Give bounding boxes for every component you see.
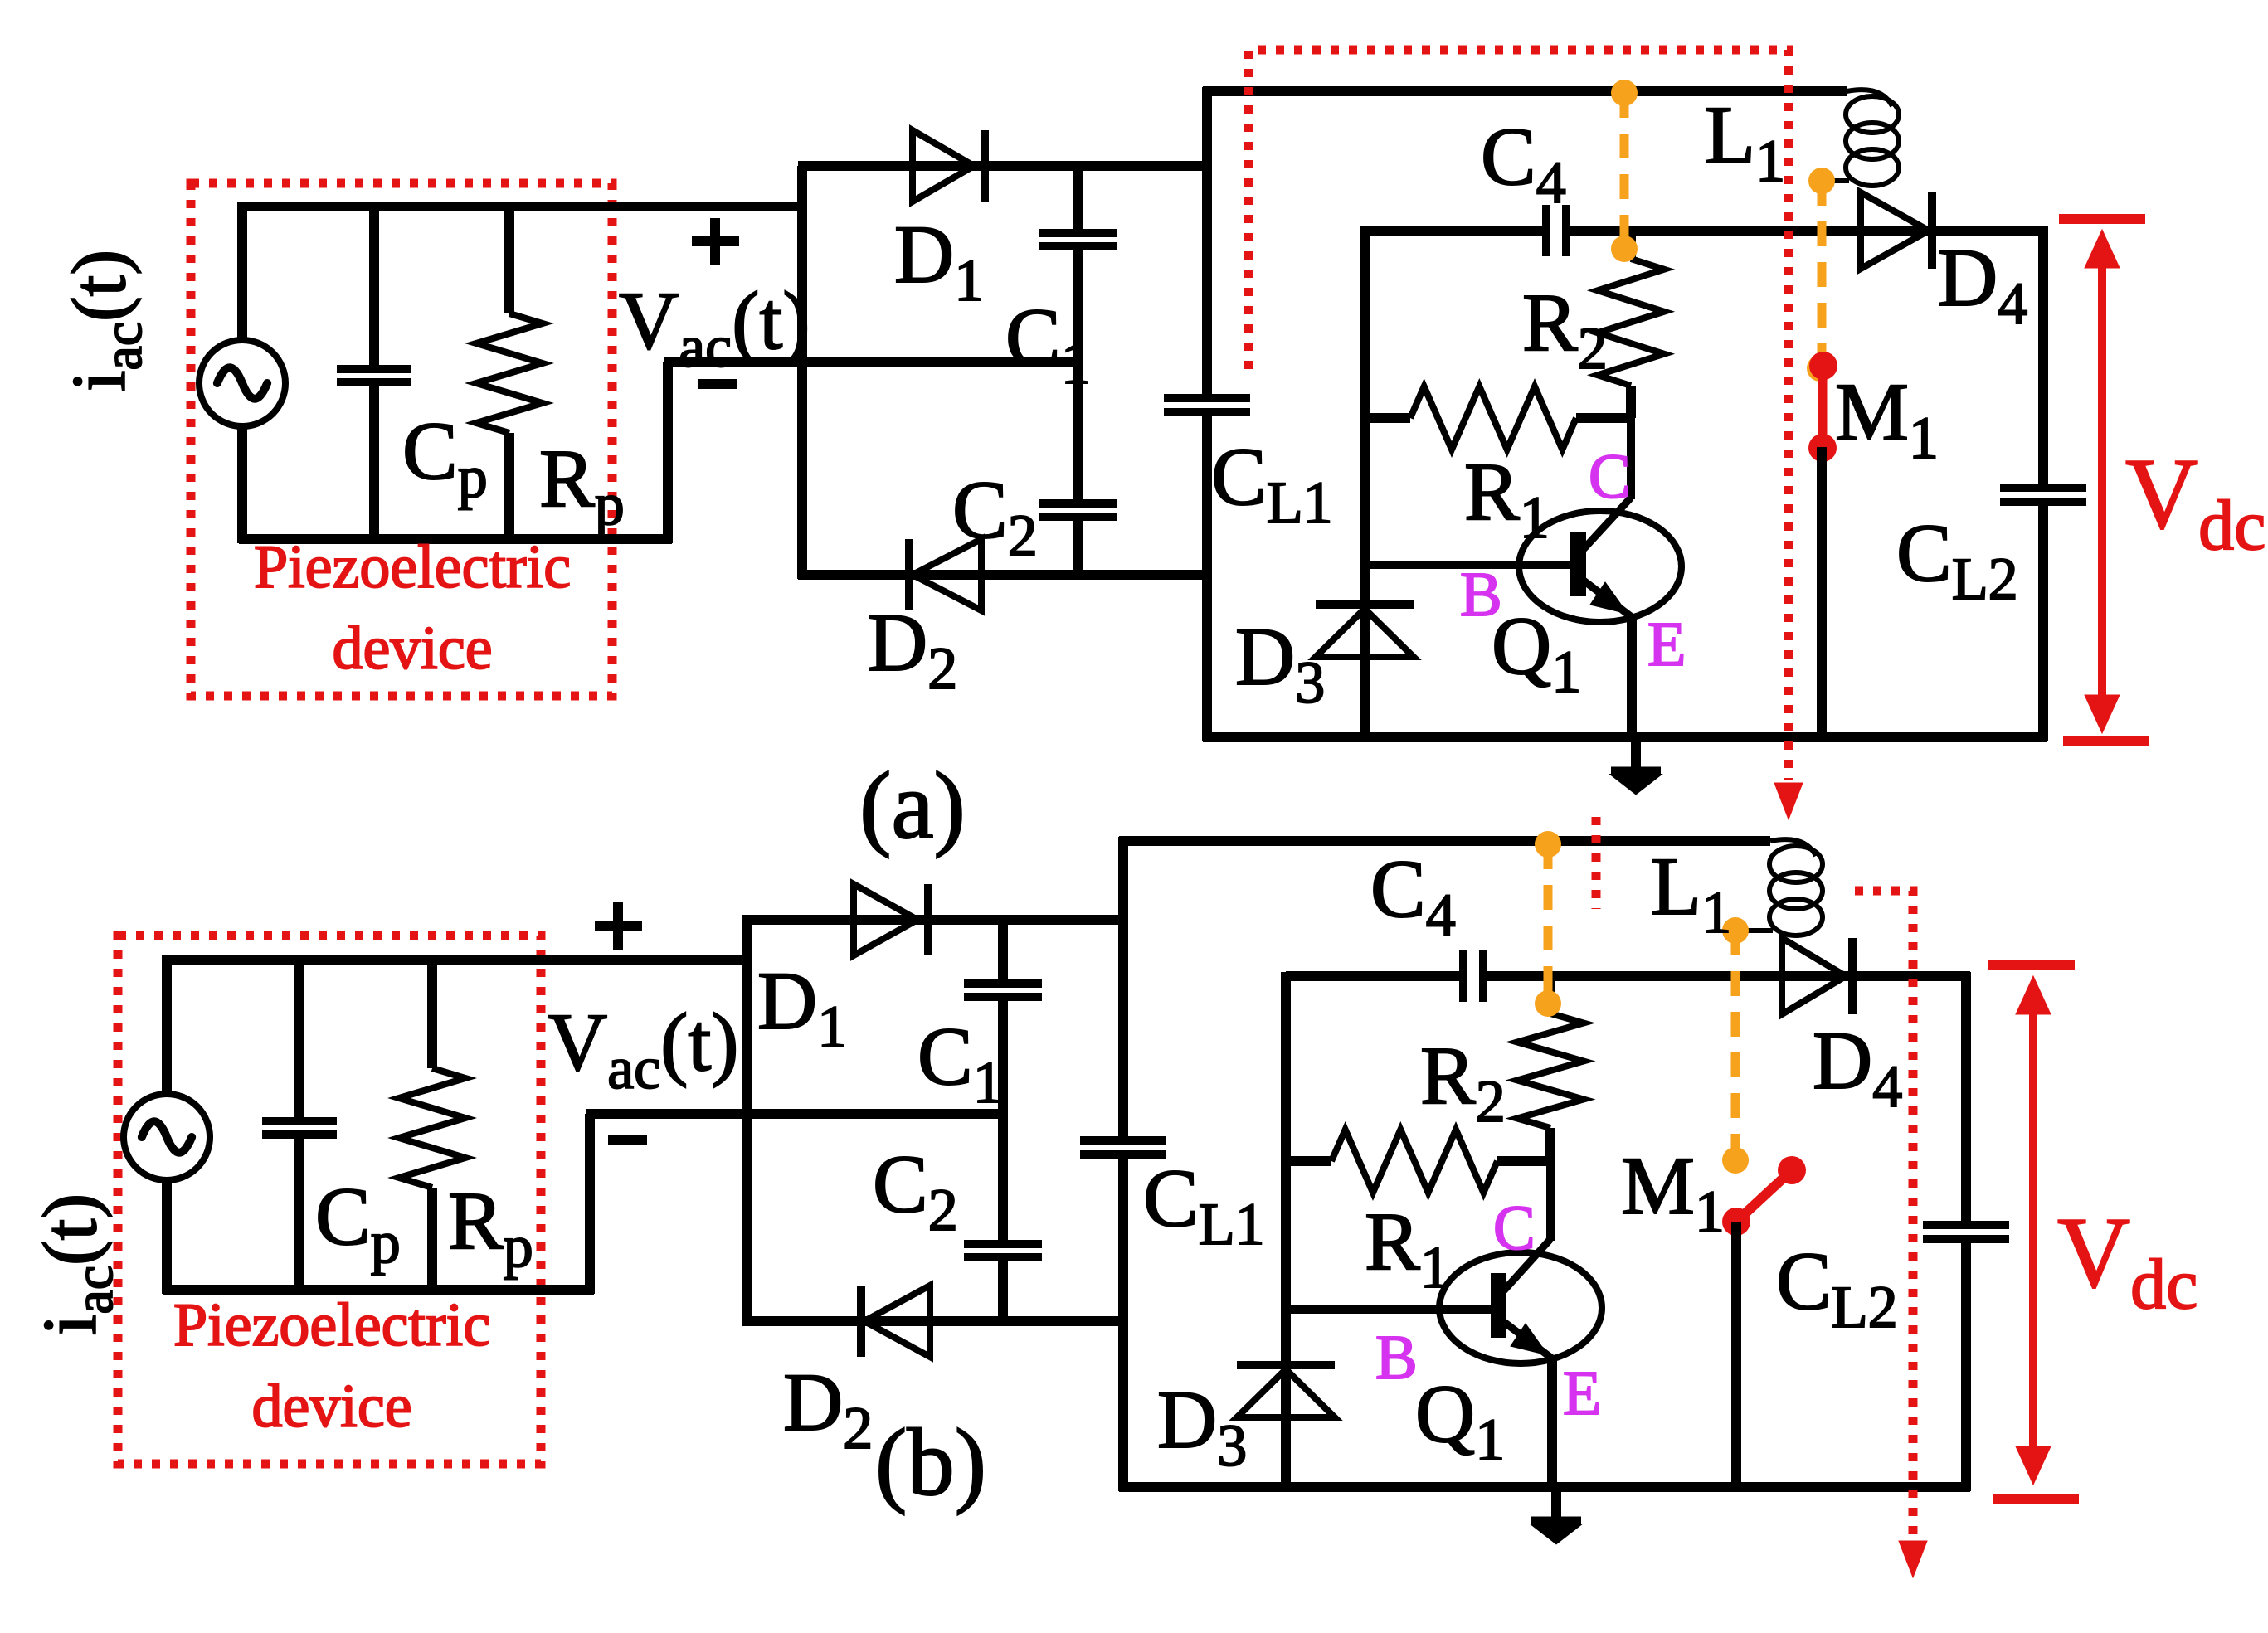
svg-text:(a): (a) bbox=[859, 753, 966, 858]
svg-text:C: C bbox=[1589, 442, 1631, 512]
svg-text:E: E bbox=[1563, 1358, 1601, 1428]
svg-text:E: E bbox=[1647, 610, 1686, 679]
svg-text:C: C bbox=[1493, 1193, 1536, 1263]
svg-text:(b): (b) bbox=[875, 1410, 986, 1515]
svg-text:device: device bbox=[251, 1373, 411, 1441]
svg-text:B: B bbox=[1460, 560, 1502, 629]
svg-text:B: B bbox=[1375, 1323, 1418, 1392]
svg-text:Piezoelectric: Piezoelectric bbox=[173, 1291, 490, 1359]
svg-text:Piezoelectric: Piezoelectric bbox=[254, 533, 571, 601]
svg-text:device: device bbox=[332, 615, 492, 683]
